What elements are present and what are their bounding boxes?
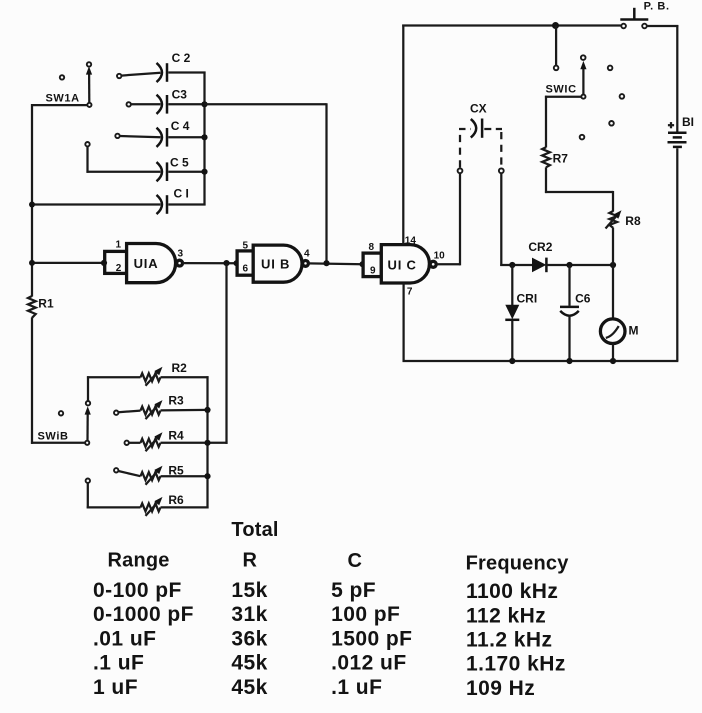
node C6 tap xyxy=(566,262,572,268)
svg-text:R3: R3 xyxy=(168,394,184,408)
svg-text:P. B.: P. B. xyxy=(644,0,670,12)
table header Total xyxy=(231,519,278,541)
pin 3 U1A xyxy=(178,248,184,259)
resistor R5 xyxy=(114,464,208,485)
svg-text:C 2: C 2 xyxy=(172,51,191,65)
svg-text:UIA: UIA xyxy=(134,256,159,271)
svg-text:10: 10 xyxy=(434,250,446,261)
wire pin 14 to top rail xyxy=(402,24,404,244)
svg-text:.1 uF: .1 uF xyxy=(93,652,144,675)
table row 2 xyxy=(93,603,546,627)
svg-text:SW1A: SW1A xyxy=(46,93,80,105)
wire U1A output to U1B input xyxy=(183,262,237,264)
table header C xyxy=(348,550,363,572)
wire pin 7 to bottom rail xyxy=(402,283,404,362)
wire battery to bottom rail xyxy=(676,148,678,361)
diode CR2 xyxy=(528,240,552,272)
wire capacitor bus xyxy=(203,71,205,205)
node bus R3 xyxy=(204,407,210,413)
pin 9 U1C xyxy=(370,265,376,276)
table row 3 xyxy=(93,627,553,651)
wire U1B output to U1C input xyxy=(309,262,363,265)
switch SW1B xyxy=(38,401,91,445)
pin 8 U1C xyxy=(369,242,375,253)
capacitor C1 xyxy=(32,187,206,215)
wire CX right terminal down to CR2 xyxy=(500,173,532,266)
resistor R1 xyxy=(28,296,54,318)
svg-text:SWiB: SWiB xyxy=(38,430,69,442)
switch SW1C xyxy=(545,26,624,140)
capacitor C3 xyxy=(127,87,205,114)
wire bottom rail xyxy=(403,360,679,362)
svg-text:C: C xyxy=(348,550,363,572)
svg-text:31k: 31k xyxy=(231,603,267,626)
pin 5 U1B xyxy=(243,241,249,252)
node bus C3 xyxy=(201,101,207,107)
svg-text:CR2: CR2 xyxy=(528,240,552,254)
svg-text:100 pF: 100 pF xyxy=(331,603,400,626)
node bus C4 xyxy=(201,134,207,140)
node U1A input xyxy=(101,260,107,266)
svg-text:112 kHz: 112 kHz xyxy=(466,604,546,627)
table row 1 xyxy=(93,579,558,603)
pin 4 U1B xyxy=(304,248,310,259)
svg-text:.012 uF: .012 uF xyxy=(331,652,407,675)
svg-text:C6: C6 xyxy=(575,292,591,306)
node bus R4 xyxy=(204,440,210,446)
svg-text:C3: C3 xyxy=(172,87,188,101)
pin 1 U1A xyxy=(116,240,122,251)
svg-text:Range: Range xyxy=(108,550,170,572)
wire U1C output up to CX terminal xyxy=(436,173,460,265)
svg-text:R: R xyxy=(243,550,258,572)
svg-text:.01 uF: .01 uF xyxy=(93,627,156,650)
svg-text:CX: CX xyxy=(470,102,487,116)
wire CX left dashed lead xyxy=(459,129,471,168)
wire resistor bus xyxy=(206,376,208,508)
pin 7 U1C xyxy=(407,287,413,298)
svg-text:R4: R4 xyxy=(168,429,184,443)
node U1C input xyxy=(360,261,366,267)
pin 10 U1C xyxy=(434,250,446,261)
svg-text:CRI: CRI xyxy=(517,292,538,306)
svg-text:109 Hz: 109 Hz xyxy=(466,677,535,700)
node oscillator feedback junction xyxy=(223,260,229,266)
svg-text:UI C: UI C xyxy=(388,258,417,273)
resistor R6 xyxy=(86,479,209,516)
node CR1 tap xyxy=(509,262,515,268)
svg-text:1: 1 xyxy=(116,240,122,251)
push button P.B. xyxy=(620,0,669,28)
svg-text:11.2 kHz: 11.2 kHz xyxy=(466,629,553,652)
resistor R8 xyxy=(606,210,641,265)
svg-text:6: 6 xyxy=(243,263,249,274)
svg-text:1100 kHz: 1100 kHz xyxy=(466,580,558,603)
op-amp U1B (NAND gate) xyxy=(237,245,308,282)
svg-text:Frequency: Frequency xyxy=(466,552,570,574)
node C6 bottom rail xyxy=(566,358,572,364)
wire CX right dashed lead xyxy=(484,129,502,168)
svg-text:R6: R6 xyxy=(168,493,184,507)
capacitor CX xyxy=(470,102,487,138)
wire CR2 cathode to R8 node xyxy=(546,264,613,266)
resistor R3 xyxy=(114,394,208,420)
table row 4 xyxy=(93,652,566,676)
op-amp U1A (NAND gate) xyxy=(105,244,183,283)
svg-text:36k: 36k xyxy=(231,627,267,650)
node CX left terminal xyxy=(458,168,463,173)
wire left rail upper xyxy=(31,104,33,297)
node meter bottom rail xyxy=(610,358,616,364)
wire R7 to R8 xyxy=(545,191,613,212)
svg-text:UI B: UI B xyxy=(261,257,290,272)
svg-text:45k: 45k xyxy=(231,676,267,699)
node top rail SW1C tap xyxy=(552,22,559,29)
node R8 meter tap xyxy=(610,262,616,268)
svg-text:SWIC: SWIC xyxy=(546,83,577,95)
capacitor C5 xyxy=(85,142,204,181)
node bus R5 xyxy=(204,473,210,479)
diode CR1 xyxy=(505,265,537,361)
wire left rail lower xyxy=(31,318,85,444)
battery B1 xyxy=(668,115,695,147)
node CX right terminal xyxy=(499,168,504,173)
table row 5 xyxy=(93,676,535,700)
svg-text:C 5: C 5 xyxy=(170,155,189,169)
node U1B output junction xyxy=(323,260,329,266)
wire top rail xyxy=(402,24,621,26)
svg-text:R2: R2 xyxy=(172,361,188,375)
svg-text:R5: R5 xyxy=(168,464,184,478)
pin 2 U1A xyxy=(116,263,122,274)
svg-text:.1 uF: .1 uF xyxy=(331,676,382,699)
table header R xyxy=(243,550,258,572)
svg-text:14: 14 xyxy=(405,235,417,246)
svg-text:5 pF: 5 pF xyxy=(331,579,376,602)
svg-text:0-100 pF: 0-100 pF xyxy=(93,579,182,602)
svg-text:BI: BI xyxy=(682,115,694,129)
node CR1 bottom rail xyxy=(509,358,515,364)
wire P.B. to battery xyxy=(647,25,679,132)
resistor R7 xyxy=(542,96,568,193)
node U1B input xyxy=(234,260,240,266)
switch SW1A xyxy=(32,62,92,107)
svg-text:5: 5 xyxy=(243,241,249,252)
resistor R4 xyxy=(125,429,208,452)
wire feedback junction down to resistor network xyxy=(208,263,228,444)
capacitor C2 xyxy=(117,51,206,82)
svg-text:C 4: C 4 xyxy=(171,119,190,133)
svg-text:9: 9 xyxy=(370,265,376,276)
svg-text:1500 pF: 1500 pF xyxy=(331,627,412,650)
svg-text:R7: R7 xyxy=(553,151,569,165)
resistor R2 xyxy=(87,361,209,401)
node rail U1A row xyxy=(29,260,35,266)
wire bus to U1B output xyxy=(205,103,327,263)
capacitor C6 xyxy=(560,265,591,361)
capacitor C4 xyxy=(115,119,204,147)
wire rail to U1A input xyxy=(32,262,104,264)
svg-text:7: 7 xyxy=(407,287,413,298)
svg-text:Total: Total xyxy=(231,519,278,541)
svg-text:45k: 45k xyxy=(231,652,267,675)
svg-text:1 uF: 1 uF xyxy=(93,676,138,699)
pin 14 U1C xyxy=(405,235,417,246)
table header Range xyxy=(108,550,170,572)
svg-text:R1: R1 xyxy=(38,297,54,311)
svg-text:M: M xyxy=(629,324,639,338)
svg-text:R8: R8 xyxy=(625,214,641,228)
table header Frequency xyxy=(466,552,570,574)
svg-text:15k: 15k xyxy=(231,579,267,602)
pin 6 U1B xyxy=(243,263,249,274)
svg-text:8: 8 xyxy=(369,242,375,253)
svg-text:2: 2 xyxy=(116,263,122,274)
svg-text:0-1000 pF: 0-1000 pF xyxy=(93,603,194,626)
svg-text:C I: C I xyxy=(174,187,189,201)
op-amp U1C (NAND gate) xyxy=(363,245,436,283)
meter M xyxy=(600,265,638,361)
svg-text:3: 3 xyxy=(178,248,184,259)
svg-text:1.170 kHz: 1.170 kHz xyxy=(466,653,566,676)
node bus C5 xyxy=(201,169,207,175)
node C1 rail junction xyxy=(29,202,35,208)
svg-text:4: 4 xyxy=(304,248,310,259)
